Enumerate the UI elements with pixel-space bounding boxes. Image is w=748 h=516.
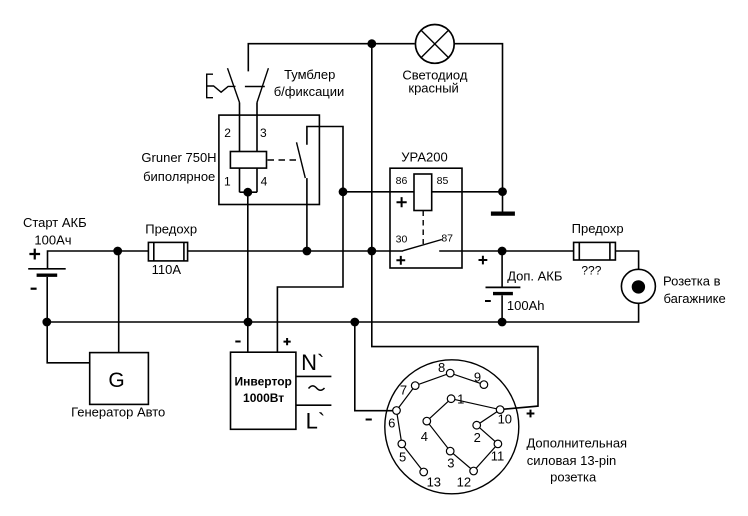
label plus U2 pin86 xyxy=(397,197,407,207)
pin 9 XS2 xyxy=(480,381,488,389)
junction plus rail B2 xyxy=(498,247,507,256)
battery B2 aux xyxy=(486,251,521,322)
inverter output terminal N xyxy=(296,375,332,377)
wire minus bus xyxy=(47,304,639,323)
pin 2 XS2 xyxy=(473,421,481,429)
svg-text:9: 9 xyxy=(474,369,481,384)
relay U1 Gruner pins 2,3 wires xyxy=(240,103,258,193)
junction bus inverter xyxy=(244,318,253,327)
toggle switch S1 xyxy=(207,68,269,102)
svg-text:Тумблер: Тумблер xyxy=(284,67,335,82)
svg-text:1: 1 xyxy=(224,175,231,189)
svg-text:б/фиксации: б/фиксации xyxy=(274,84,345,99)
svg-text:4: 4 xyxy=(261,175,268,189)
svg-text:Дополнительная: Дополнительная xyxy=(526,435,627,450)
relay U1 coil-contact dashed link xyxy=(268,159,300,161)
relay U2 dashed link xyxy=(422,211,424,245)
generator G1 box xyxy=(90,353,149,405)
wire node A to inverter plus xyxy=(277,192,343,352)
wire XS2 pins 6-7-8-9 xyxy=(397,373,484,410)
pin 8 XS2 xyxy=(446,369,454,377)
junction plus rail relay contact xyxy=(303,247,312,256)
pin 5 XS2 xyxy=(398,440,406,448)
junction bus B2 xyxy=(498,318,507,327)
label plus inverter xyxy=(284,338,291,345)
pin 3 XS2 xyxy=(446,447,454,455)
wire plus rail pin87 to fuse F2 xyxy=(439,250,573,252)
svg-text:8: 8 xyxy=(438,360,445,375)
fuse F2 xyxy=(574,242,616,260)
socket XS1 trunk xyxy=(621,269,655,303)
svg-text:L`: L` xyxy=(306,409,326,434)
svg-text:10: 10 xyxy=(498,412,512,427)
label plus U2 pin30 xyxy=(396,256,405,265)
wire plus feed to 13pin socket xyxy=(372,44,538,410)
svg-text:1: 1 xyxy=(457,392,464,407)
fuse F1 xyxy=(148,242,187,261)
wire LED to ground xyxy=(455,44,503,192)
svg-text:3: 3 xyxy=(260,126,267,140)
label plus XS2 pin10 xyxy=(527,410,535,418)
svg-text:6: 6 xyxy=(388,415,395,430)
junction top node xyxy=(367,39,376,48)
battery B1 start xyxy=(28,269,65,322)
relay U1 coil xyxy=(230,152,266,169)
relay U1 box xyxy=(219,115,320,204)
label relay U1 pins xyxy=(224,126,268,188)
inverter AC tilde xyxy=(309,386,325,390)
svg-text:11: 11 xyxy=(491,448,505,463)
svg-text:G: G xyxy=(108,369,124,392)
svg-text:110А: 110А xyxy=(152,262,182,277)
svg-text:биполярное: биполярное xyxy=(143,169,215,184)
svg-text:13: 13 xyxy=(427,475,441,490)
LED D1 xyxy=(415,25,454,64)
svg-text:2: 2 xyxy=(474,430,481,445)
svg-text:4: 4 xyxy=(421,429,428,444)
label plus B2 xyxy=(479,256,488,265)
wire minus feed to 13pin socket xyxy=(355,322,393,411)
ground xyxy=(491,192,515,214)
label inverter xyxy=(235,375,292,406)
label minus XS2 pin6 xyxy=(366,419,372,421)
svg-text:2: 2 xyxy=(224,126,231,140)
svg-text:Предохр: Предохр xyxy=(145,221,197,236)
svg-text:???: ??? xyxy=(581,264,601,278)
wire relay common to inverter minus xyxy=(247,192,249,352)
wire plus rail fuse F2 to socket xyxy=(615,251,638,269)
relay U1 contact arm xyxy=(297,142,306,178)
junction bus minus feed xyxy=(350,318,359,327)
pin 13 XS2 xyxy=(420,468,428,476)
relay U2 contact arm xyxy=(403,240,442,251)
wire generator left to bus xyxy=(47,322,89,363)
svg-text:7: 7 xyxy=(400,383,407,398)
svg-text:12: 12 xyxy=(457,475,471,490)
relay U2 coil xyxy=(414,174,432,211)
svg-text:100Ач: 100Ач xyxy=(34,233,71,248)
label connector pins xyxy=(388,360,512,490)
relay U2 UPA200 box xyxy=(390,168,462,268)
svg-text:1000Вт: 1000Вт xyxy=(243,391,284,405)
svg-text:багажнике: багажнике xyxy=(663,291,725,306)
svg-text:87: 87 xyxy=(441,233,453,245)
svg-text:30: 30 xyxy=(396,234,408,246)
svg-text:5: 5 xyxy=(399,450,406,465)
svg-text:86: 86 xyxy=(396,175,408,187)
svg-text:Старт АКБ: Старт АКБ xyxy=(23,215,87,230)
pin 1 XS2 xyxy=(447,395,455,403)
svg-text:силовая 13-pin: силовая 13-pin xyxy=(527,453,617,468)
svg-text:100Ah: 100Ah xyxy=(507,298,545,313)
inverter output terminal L xyxy=(296,404,332,406)
label plus B1 xyxy=(29,249,40,260)
wire main plus rail left: battery to fuse F1 xyxy=(48,251,149,269)
wire relay contact top to UPA200 coil and ground xyxy=(307,127,503,192)
svg-text:красный: красный xyxy=(408,80,458,95)
junction bus B1 xyxy=(42,318,51,327)
svg-text:Розетка в: Розетка в xyxy=(663,274,721,289)
junction relay pins 1-4 xyxy=(243,188,252,197)
svg-text:УРА200: УРА200 xyxy=(401,150,447,165)
wire plus rail fuse F1 to UPA200 pin30 xyxy=(188,250,403,252)
pin 11 XS2 xyxy=(494,440,502,448)
wire generator top to plus rail xyxy=(118,251,120,353)
junction node A xyxy=(339,187,348,196)
svg-text:3: 3 xyxy=(447,455,454,470)
wire XS2 pins 6-5-13 xyxy=(397,411,424,473)
svg-text:Генератор Авто: Генератор Авто xyxy=(71,404,165,419)
svg-text:Инвертор: Инвертор xyxy=(235,375,292,389)
junction plus rail generator xyxy=(113,247,122,256)
svg-text:розетка: розетка xyxy=(550,469,597,484)
junction ground node xyxy=(498,187,507,196)
label minus inverter xyxy=(235,341,240,343)
connector XS2 outer circle xyxy=(385,360,519,494)
pin 10 XS2 xyxy=(496,406,504,414)
svg-text:N`: N` xyxy=(301,350,324,375)
svg-text:Gruner 750H: Gruner 750H xyxy=(141,150,216,165)
wire relay contact bottom to plus rail xyxy=(306,178,308,251)
pin 7 XS2 xyxy=(411,382,419,390)
wire XS2 pins 1-4-3-12-11-2-10-1 xyxy=(427,399,500,471)
label minus B1 xyxy=(31,288,37,290)
svg-text:85: 85 xyxy=(437,175,449,187)
svg-text:Доп. АКБ: Доп. АКБ xyxy=(507,269,562,284)
pin 6 XS2 xyxy=(393,407,401,415)
label minus B2 xyxy=(485,300,491,302)
svg-text:Предохр: Предохр xyxy=(572,221,624,236)
wire top node xyxy=(248,44,414,72)
junction plus rail feed xyxy=(367,247,376,256)
pin 12 XS2 xyxy=(470,467,478,475)
inverter U3 box xyxy=(231,352,296,429)
pin 4 XS2 xyxy=(423,417,431,425)
